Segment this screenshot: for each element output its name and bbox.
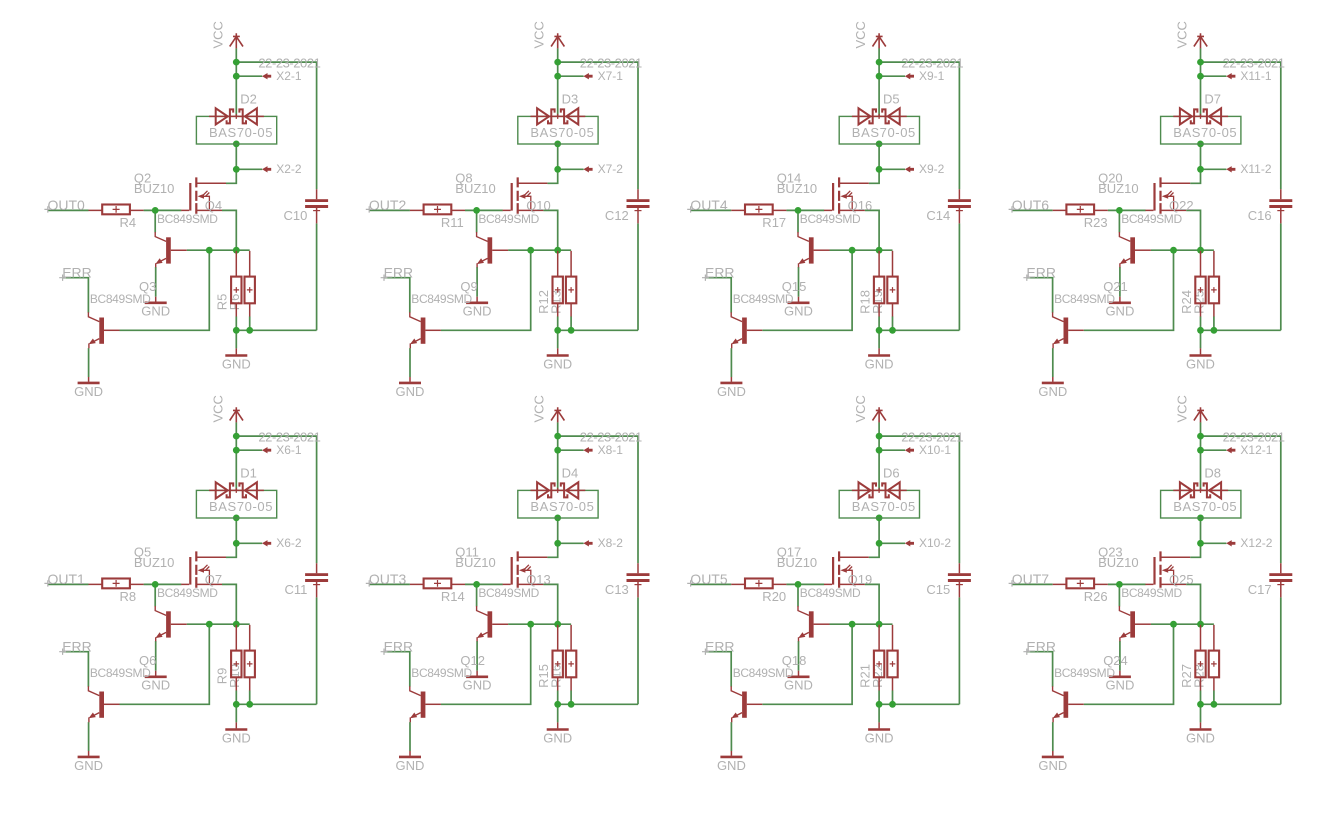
svg-text:OUT7: OUT7 [1012,571,1050,587]
ground GND (emitter Q9) [409,377,411,382]
ground GND (emitter Q15) [730,377,732,382]
connector pin X6-2 [262,540,271,546]
power VCC symbol [551,407,564,422]
wire bottom row to capacitor C14 column [879,329,959,331]
wire R11 to gate of Q8 and base of Q10 [465,209,503,211]
wire branch to pin X12-2 [1201,542,1227,544]
wire R28 bottom to GND row [1213,690,1215,704]
svg-text:BC849SMD: BC849SMD [1121,212,1182,226]
junction gnd node left [233,701,240,708]
svg-text:ERR: ERR [384,264,414,280]
net end cross ERR [59,275,66,281]
wire D (D3) box bottom down to X2-2 node and MOSFET drain [547,144,557,183]
resistor R8 [89,579,144,589]
resistor R27 [1195,625,1205,691]
wire Q10 emitter to GND [476,267,478,297]
wire GND stub below R15 [557,704,559,722]
junction Q12 collector link [527,621,534,628]
svg-text:X12-1: X12-1 [1240,443,1272,457]
wire Q18 collector link up to collector row [762,624,852,704]
junction vcc rail [233,433,240,440]
junction vcc rail [876,433,883,440]
wire R21 bottom to GND row [878,690,880,704]
svg-text:OUT3: OUT3 [369,571,407,587]
wire R26 to gate of Q23 and base of Q25 [1108,583,1146,585]
wire Q21 emitter to GND [1052,348,1054,377]
net end cross ERR [381,275,388,281]
svg-text:BC849SMD: BC849SMD [157,212,218,226]
wire Q23 source down to collector row [1186,584,1200,624]
ground GND (below R12/R13) [557,348,559,354]
wire R17 to gate of Q14 and base of Q16 [786,209,824,211]
resistor R23 [1053,205,1108,215]
junction vcc rail [876,59,883,66]
wire VCC net: vcc arrow down to D (D2) center [235,48,237,116]
wire Q20 source down to collector row [1186,210,1200,250]
svg-text:ERR: ERR [705,264,735,280]
svg-text:R5: R5 [215,294,230,311]
wire bottom row to capacitor C10 column [236,329,316,331]
net end cross OUT5 [687,580,694,586]
ground GND (emitter Q12) [409,751,411,756]
transistor Q20 BUZ10 n-mosfet [1145,177,1190,213]
wire VCC net: vcc arrow down to D (D4) center [557,422,559,490]
wire Q5 source down to collector row [222,584,236,624]
capacitor C17 [1269,563,1292,597]
svg-text:VCC: VCC [853,395,868,422]
svg-text:OUT6: OUT6 [1012,197,1050,213]
junction gnd node right [1211,701,1218,708]
svg-text:R20: R20 [762,589,786,604]
resistor R24 [1195,251,1205,317]
svg-text:C14: C14 [926,208,950,223]
connector pin X12-1 [1226,447,1235,453]
wire ERR net down to base of Q6 [63,652,89,687]
svg-text:R26: R26 [1084,589,1108,604]
junction gate/base tap [1116,581,1123,588]
junction D1 box bottom [233,515,240,522]
svg-text:R11: R11 [441,215,464,230]
ground GND (emitter Q25) [1119,671,1121,676]
transistor Q22 BC849SMD npn [1119,232,1151,267]
transistor Q18 BC849SMD npn [731,686,762,722]
svg-text:GND: GND [865,356,894,371]
svg-text:X9-2: X9-2 [919,162,945,176]
ground GND (emitter Q24) [1052,751,1054,756]
wire branch to pin X2-2 [236,168,262,170]
svg-text:BC849SMD: BC849SMD [800,586,861,600]
svg-text:BC849SMD: BC849SMD [733,666,794,680]
wire branch to pin X11-1 [1201,75,1227,77]
svg-text:X6-1: X6-1 [276,443,302,457]
wire VCC net: top rail right and down to capacitor C15 [879,436,959,563]
wire branch to pin X9-2 [879,168,905,170]
junction gnd node right [568,701,575,708]
junction Q3 collector link [206,247,213,254]
wire OUT5 net into resistor R20 [691,583,732,585]
junction source/collector node [233,621,240,628]
junction D6 box bottom [876,515,883,522]
svg-text:GND: GND [396,758,425,773]
svg-text:X8-2: X8-2 [598,536,624,550]
junction vcc rail [1197,433,1204,440]
connector pin X6-1 [262,447,271,453]
wire ERR net down to base of Q21 [1027,278,1053,313]
transistor Q6 BC849SMD npn [88,686,119,722]
transistor Q11 BUZ10 n-mosfet [503,551,548,587]
capacitor C15 [948,563,971,597]
power VCC symbol [230,407,243,422]
wire GND stub below R21 [878,704,880,722]
junction vcc rail [233,59,240,66]
svg-text:BC849SMD: BC849SMD [1121,586,1182,600]
svg-text:D2: D2 [240,92,257,107]
wire base feed of Q22 [1118,210,1120,232]
wire R22 bottom to GND row [892,690,894,704]
svg-text:D6: D6 [883,466,900,481]
svg-text:BC849SMD: BC849SMD [478,212,539,226]
svg-text:R14: R14 [441,589,465,604]
transistor Q12 BC849SMD npn [410,686,441,722]
svg-text:BUZ10: BUZ10 [1098,181,1138,196]
wire Q11 source down to collector row [543,584,557,624]
junction X6-1 tap [233,447,240,454]
net end cross OUT0 [44,206,51,212]
junction gate/base tap [1116,207,1123,214]
svg-text:BUZ10: BUZ10 [455,555,495,570]
wire D (D5) box bottom down to X2-2 node and MOSFET drain [869,144,879,183]
wire Q21 collector link up to collector row [1084,250,1174,330]
wire Q14 source down to collector row [865,210,879,250]
wire Q17 source down to collector row [865,584,879,624]
wire R6 bottom to GND row [249,316,251,330]
wire bottom row to capacitor C11 column [236,703,316,705]
wire base feed of Q10 [476,210,478,232]
wire branch to pin X7-2 [558,168,584,170]
svg-text:C10: C10 [284,208,308,223]
wire R24 bottom to GND row [1200,316,1202,330]
svg-text:R15: R15 [536,664,551,688]
transistor Q23 BUZ10 n-mosfet [1145,551,1190,587]
power VCC symbol [873,407,886,422]
wire Q19 emitter to GND [798,641,800,671]
wire VCC net: top rail right and down to capacitor C17 [1201,436,1281,563]
wire Q18 emitter to GND [730,722,732,751]
svg-text:OUT4: OUT4 [690,197,728,213]
transistor Q14 BUZ10 n-mosfet [824,177,869,213]
wire Q6 collector link up to collector row [120,624,210,704]
transistor Q16 BC849SMD npn [798,232,830,267]
net end cross OUT3 [366,580,373,586]
svg-text:BAS70-05: BAS70-05 [530,499,594,514]
junction X9-2 tap [876,166,883,173]
wire base feed of Q19 [797,584,799,606]
svg-text:ERR: ERR [1026,638,1056,654]
svg-text:D3: D3 [562,92,579,107]
ground GND (emitter Q18) [730,751,732,756]
wire GND stub below R12 [557,330,559,348]
transistor Q2 BUZ10 n-mosfet [181,177,226,213]
junction gnd node right [246,701,253,708]
junction source/collector node [876,247,883,254]
ground GND (below R24/R25) [1200,348,1202,354]
junction gate/base tap [152,581,159,588]
svg-text:R27: R27 [1179,664,1194,688]
junction D7 box bottom [1197,141,1204,148]
capacitor C10 [305,189,328,223]
resistor R12 [553,251,563,317]
net end cross OUT6 [1009,206,1016,212]
transistor Q15 BC849SMD npn [731,312,762,348]
ground GND (below R9/R10) [235,722,237,728]
wire D (D1) box bottom down to X2-2 node and MOSFET drain [226,518,236,557]
svg-text:BUZ10: BUZ10 [1098,555,1138,570]
wire ERR net down to base of Q9 [384,278,410,313]
wire base feed of Q13 [476,584,478,606]
net end cross ERR [381,649,388,655]
svg-text:X10-2: X10-2 [919,536,951,550]
junction source/collector node [233,247,240,254]
junction vcc rail [554,59,561,66]
wire R27 bottom to GND row [1200,690,1202,704]
junction source/collector node [876,621,883,628]
wire bottom row to capacitor C13 column [558,703,638,705]
svg-text:BUZ10: BUZ10 [134,181,174,196]
junction gnd node right [246,327,253,334]
resistor R4 [89,205,144,215]
wire Q9 emitter to GND [409,348,411,377]
svg-text:VCC: VCC [1175,21,1190,48]
wire GND stub below R24 [1200,330,1202,348]
ground GND (emitter Q10) [476,297,478,302]
power VCC symbol [1194,33,1207,48]
transistor Q19 BC849SMD npn [798,606,830,641]
wire VCC net: vcc arrow down to D (D7) center [1200,48,1202,116]
ground GND (emitter Q7) [155,671,157,676]
ground GND (below R21/R22) [878,722,880,728]
net end cross ERR [702,275,709,281]
wire base feed of Q4 [154,210,156,232]
svg-text:R17: R17 [762,215,786,230]
wire OUT0 net into resistor R4 [48,209,89,211]
wire D (D7) box bottom down to X2-2 node and MOSFET drain [1190,144,1200,183]
svg-text:VCC: VCC [1175,395,1190,422]
capacitor C12 [627,189,650,223]
wire Q24 emitter to GND [1052,722,1054,751]
svg-text:VCC: VCC [210,21,225,48]
wire branch to pin X6-2 [236,542,262,544]
junction X9-1 tap [876,73,883,80]
net end cross OUT4 [687,206,694,212]
junction D3 box bottom [554,141,561,148]
svg-text:BC849SMD: BC849SMD [411,666,472,680]
svg-text:BAS70-05: BAS70-05 [852,125,916,140]
wire branch to pin X9-1 [879,75,905,77]
svg-text:R24: R24 [1179,290,1194,314]
svg-text:BUZ10: BUZ10 [777,555,817,570]
wire branch to pin X12-1 [1201,449,1227,451]
wire VCC net: top rail right and down to capacitor C11 [236,436,316,563]
ground GND (below R15/R16) [557,722,559,728]
wire D (D2) box bottom down to X2-2 node and MOSFET drain [226,144,236,183]
wire Q15 emitter to GND [730,348,732,377]
wire R18 bottom to GND row [878,316,880,330]
wire branch to pin X2-1 [236,75,262,77]
junction gate/base tap [152,207,159,214]
svg-text:BC849SMD: BC849SMD [1054,666,1115,680]
svg-text:OUT5: OUT5 [690,571,728,587]
wire R8 to gate of Q5 and base of Q7 [144,583,182,585]
resistor R14 [410,579,465,589]
wire ERR net down to base of Q15 [705,278,731,313]
wire R15 bottom to GND row [557,690,559,704]
wire Q25 emitter to GND [1119,641,1121,671]
resistor R15 [553,625,563,691]
ground GND (below R27/R28) [1200,722,1202,728]
ground GND (emitter Q4) [155,297,157,302]
wire collector row of Q4 to resistors R5 R6 [187,249,250,251]
svg-text:VCC: VCC [532,21,547,48]
capacitor C11 [305,563,328,597]
svg-text:ERR: ERR [384,638,414,654]
capacitor C16 [1269,189,1292,223]
junction source/collector node [1197,621,1204,628]
junction gnd node left [554,701,561,708]
diode D1 dual schottky BAS70-05 [196,482,276,518]
svg-text:R8: R8 [120,589,137,604]
wire Q3 emitter to GND [88,348,90,377]
svg-text:GND: GND [543,356,572,371]
net end cross ERR [59,649,66,655]
net end cross ERR [702,649,709,655]
wire ERR net down to base of Q3 [63,278,89,313]
svg-text:GND: GND [222,356,251,371]
transistor Q7 BC849SMD npn [155,606,187,641]
transistor Q13 BC849SMD npn [477,606,509,641]
svg-text:X2-2: X2-2 [276,162,302,176]
wire VCC net: top rail right and down to capacitor C14 [879,62,959,189]
wire bottom row to capacitor C17 column [1201,703,1281,705]
ground GND (emitter Q3) [88,377,90,382]
connector pin X7-2 [583,166,592,172]
svg-text:D8: D8 [1204,466,1221,481]
wire capacitor C15 bottom column [958,597,960,704]
transistor Q9 BC849SMD npn [410,312,441,348]
svg-text:ERR: ERR [705,638,735,654]
svg-text:X9-1: X9-1 [919,69,945,83]
wire R23 to gate of Q20 and base of Q22 [1108,209,1146,211]
junction X12-2 tap [1197,540,1204,547]
wire bottom row to capacitor C15 column [879,703,959,705]
wire branch to pin X11-2 [1201,168,1227,170]
wire VCC net: vcc arrow down to D (D6) center [878,422,880,490]
svg-text:GND: GND [396,384,425,399]
junction source/collector node [1197,247,1204,254]
wire GND stub below R9 [235,704,237,722]
wire collector row of Q22 to resistors R24 R25 [1151,249,1214,251]
wire branch to pin X8-2 [558,542,584,544]
connector pin X2-2 [262,166,271,172]
wire R14 to gate of Q11 and base of Q13 [465,583,503,585]
wire VCC net: top rail right and down to capacitor C12 [558,62,638,189]
wire VCC net: vcc arrow down to D (D3) center [557,48,559,116]
ground GND (emitter Q21) [1052,377,1054,382]
ground GND (emitter Q22) [1119,297,1121,302]
junction X10-2 tap [876,540,883,547]
wire base feed of Q7 [154,584,156,606]
transistor Q3 BC849SMD npn [88,312,119,348]
junction gnd node left [876,327,883,334]
wire D (D8) box bottom down to X2-2 node and MOSFET drain [1190,518,1200,557]
svg-text:C15: C15 [926,582,950,597]
resistor R13 [566,251,576,317]
wire Q4 emitter to GND [155,267,157,297]
wire D (D4) box bottom down to X2-2 node and MOSFET drain [547,518,557,557]
svg-text:VCC: VCC [853,21,868,48]
resistor R25 [1209,251,1219,317]
resistor R17 [731,205,786,215]
svg-text:BUZ10: BUZ10 [455,181,495,196]
capacitor C14 [948,189,971,223]
svg-text:GND: GND [1038,384,1067,399]
junction X7-1 tap [554,73,561,80]
wire R16 bottom to GND row [570,690,572,704]
svg-text:BUZ10: BUZ10 [777,181,817,196]
svg-text:R18: R18 [857,290,872,314]
junction Q18 collector link [849,621,856,628]
svg-text:BC849SMD: BC849SMD [478,586,539,600]
transistor Q5 BUZ10 n-mosfet [181,551,226,587]
junction Q15 collector link [849,247,856,254]
svg-text:ERR: ERR [62,264,92,280]
junction X8-1 tap [554,447,561,454]
wire capacitor C12 bottom column [637,223,639,330]
wire VCC net: top rail right and down to capacitor C13 [558,436,638,563]
svg-text:X6-2: X6-2 [276,536,302,550]
junction Q9 collector link [527,247,534,254]
junction gnd node right [889,701,896,708]
wire GND stub below R27 [1200,704,1202,722]
svg-text:GND: GND [1186,356,1215,371]
svg-text:OUT0: OUT0 [48,197,86,213]
svg-text:BC849SMD: BC849SMD [800,212,861,226]
wire OUT6 net into resistor R23 [1012,209,1053,211]
junction Q6 collector link [206,621,213,628]
ground GND (emitter Q6) [88,751,90,756]
junction gate/base tap [795,207,802,214]
svg-text:OUT2: OUT2 [369,197,407,213]
wire Q9 collector link up to collector row [441,250,531,330]
svg-text:X11-1: X11-1 [1240,69,1271,83]
resistor R20 [731,579,786,589]
svg-text:BC849SMD: BC849SMD [157,586,218,600]
svg-text:C11: C11 [285,582,308,597]
junction Q21 collector link [1170,247,1177,254]
net end cross OUT7 [1009,580,1016,586]
wire Q15 collector link up to collector row [762,250,852,330]
junction X12-1 tap [1197,447,1204,454]
wire capacitor C13 bottom column [637,597,639,704]
junction gnd node left [554,327,561,334]
svg-text:X10-1: X10-1 [919,443,951,457]
transistor Q8 BUZ10 n-mosfet [503,177,548,213]
connector pin X2-1 [262,73,271,79]
svg-text:BC849SMD: BC849SMD [90,666,151,680]
junction X11-2 tap [1197,166,1204,173]
diode D7 dual schottky BAS70-05 [1161,108,1241,144]
svg-text:ERR: ERR [62,638,92,654]
svg-text:R21: R21 [857,664,872,688]
